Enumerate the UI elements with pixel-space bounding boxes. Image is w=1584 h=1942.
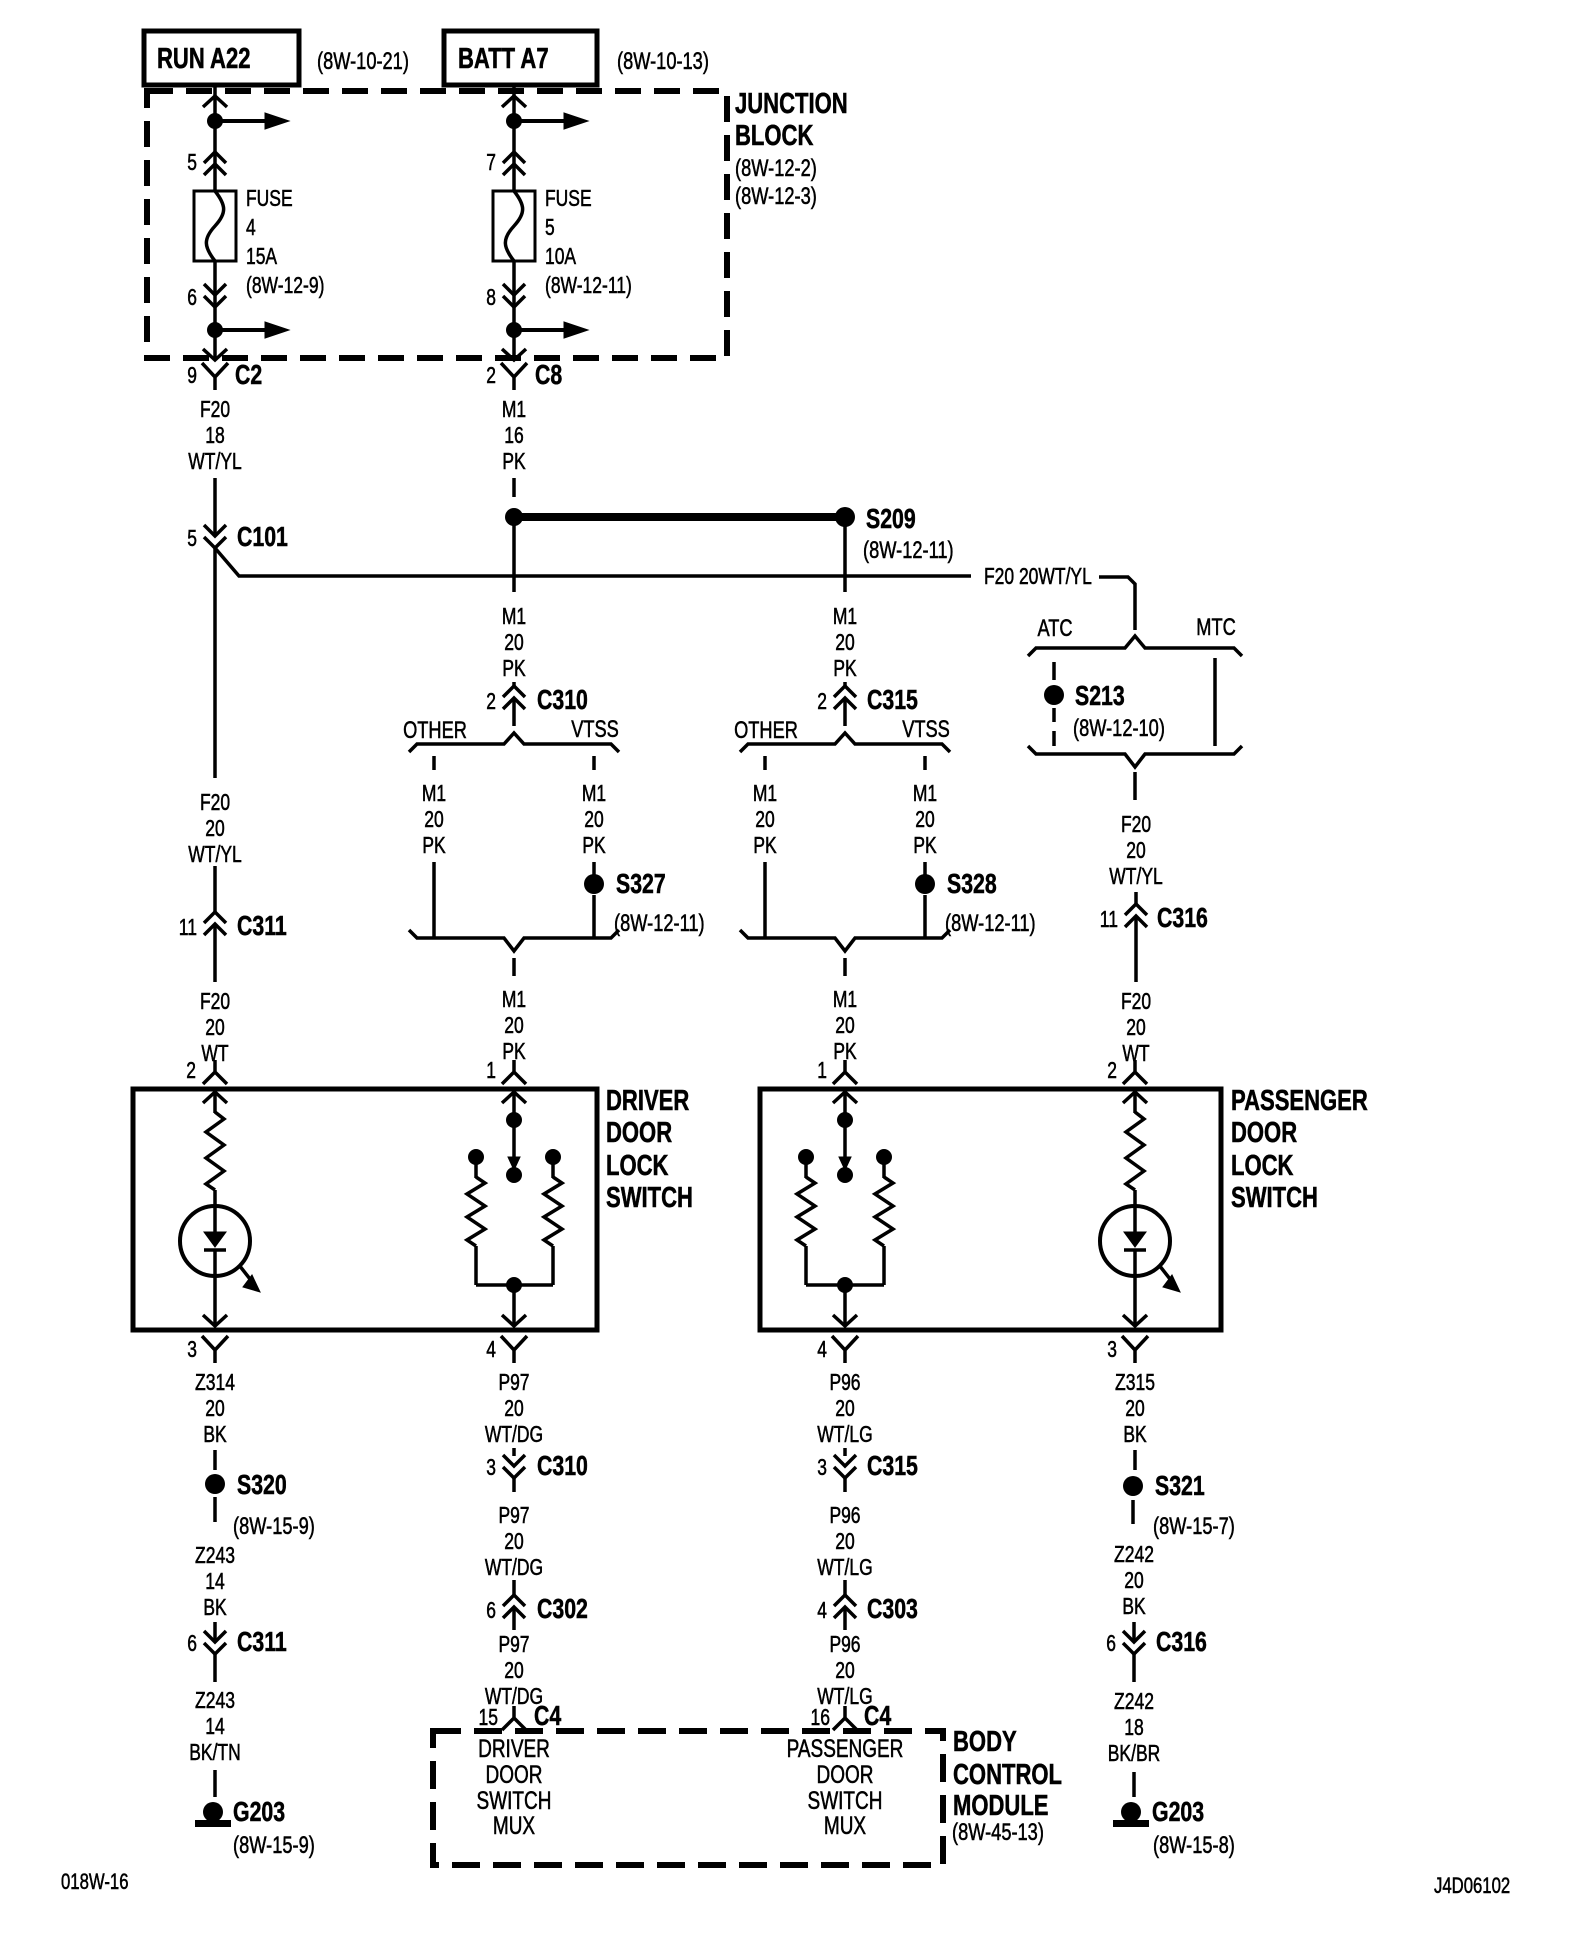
svg-text:7: 7 xyxy=(486,149,496,175)
MTC branch wire xyxy=(1213,658,1217,746)
svg-text:C303: C303 xyxy=(867,1593,918,1624)
svg-text:G203: G203 xyxy=(233,1796,285,1827)
svg-text:(8W-10-13): (8W-10-13) xyxy=(617,48,709,75)
svg-text:PK: PK xyxy=(582,832,606,858)
svg-text:PK: PK xyxy=(502,448,526,474)
driver branch merge brace xyxy=(409,930,619,951)
svg-text:6: 6 xyxy=(1106,1630,1116,1656)
svg-text:M1: M1 xyxy=(502,603,526,629)
driver LED wire xyxy=(213,1190,217,1232)
svg-text:(8W-15-8): (8W-15-8) xyxy=(1153,1832,1235,1859)
C310 branch brace xyxy=(409,733,619,752)
bus corner wire to ATC/MTC xyxy=(1099,577,1135,630)
ground G203 left xyxy=(203,1802,223,1822)
wire below merge xyxy=(1133,772,1137,800)
svg-text:P96: P96 xyxy=(829,1631,860,1657)
svg-text:MUX: MUX xyxy=(493,1812,535,1840)
svg-text:14: 14 xyxy=(205,1568,225,1594)
svg-text:DOOR: DOOR xyxy=(817,1761,874,1789)
svg-text:OTHER: OTHER xyxy=(734,717,798,744)
wire to C310 xyxy=(512,682,516,688)
svg-text:11: 11 xyxy=(1100,906,1118,932)
svg-text:FUSE: FUSE xyxy=(246,185,293,211)
splice S327 xyxy=(584,874,604,894)
svg-text:BK/TN: BK/TN xyxy=(189,1739,241,1765)
fuse 5 10A xyxy=(493,191,535,261)
pin 6 connector chevrons xyxy=(204,284,226,307)
svg-text:F20 20WT/YL: F20 20WT/YL xyxy=(984,563,1092,589)
branch wire to F20 bus xyxy=(215,548,971,576)
svg-text:20: 20 xyxy=(755,806,775,832)
svg-text:S321: S321 xyxy=(1155,1470,1205,1501)
svg-text:6: 6 xyxy=(187,1630,197,1656)
wire exiting junction block xyxy=(512,330,516,358)
svg-text:Z243: Z243 xyxy=(195,1542,235,1568)
svg-text:4: 4 xyxy=(246,214,256,240)
connector C310 pin 2 xyxy=(503,686,525,709)
pin 8 connector chevrons xyxy=(503,284,525,307)
splice S320 xyxy=(205,1474,225,1494)
svg-text:M1: M1 xyxy=(913,780,937,806)
svg-text:(8W-12-11): (8W-12-11) xyxy=(614,910,705,937)
wire below C101 xyxy=(213,548,217,778)
svg-text:M1: M1 xyxy=(753,780,777,806)
wire below S209 tap xyxy=(512,524,516,592)
svg-text:10A: 10A xyxy=(545,243,577,269)
svg-text:WT/YL: WT/YL xyxy=(1109,863,1163,889)
passenger VTSS branch xyxy=(923,756,927,770)
svg-text:MODULE: MODULE xyxy=(953,1790,1049,1822)
passenger branch merge brace xyxy=(740,930,950,951)
svg-text:BK: BK xyxy=(1122,1593,1146,1619)
passenger LED wire xyxy=(1133,1190,1137,1232)
svg-text:WT/LG: WT/LG xyxy=(817,1421,872,1447)
svg-text:PK: PK xyxy=(422,832,446,858)
svg-text:DRIVER: DRIVER xyxy=(606,1085,689,1117)
driver switch resistor left xyxy=(467,1177,485,1246)
svg-text:P97: P97 xyxy=(498,1502,529,1528)
svg-text:(8W-12-11): (8W-12-11) xyxy=(945,910,1036,937)
svg-text:SWITCH: SWITCH xyxy=(808,1787,883,1815)
wire to C302 xyxy=(512,1580,516,1596)
svg-text:WT/DG: WT/DG xyxy=(485,1421,543,1447)
wire to C303 xyxy=(843,1580,847,1596)
svg-text:C311: C311 xyxy=(237,1626,287,1657)
passenger switch wire to exit xyxy=(843,1285,847,1326)
wire below C311 lower xyxy=(213,1654,217,1682)
driver switch resistor right xyxy=(544,1177,562,1246)
svg-text:20: 20 xyxy=(835,1012,855,1038)
svg-text:20: 20 xyxy=(835,1395,855,1421)
svg-text:(8W-12-2): (8W-12-2) xyxy=(735,155,817,182)
wire to C311 xyxy=(213,866,217,913)
svg-text:BLOCK: BLOCK xyxy=(735,120,813,152)
connector C315 pin 2 xyxy=(834,686,856,709)
svg-text:VTSS: VTSS xyxy=(571,716,619,743)
ground G203 right xyxy=(1121,1802,1141,1822)
svg-text:20: 20 xyxy=(504,629,524,655)
ATC dashes below S213 xyxy=(1052,708,1056,722)
ATC MTC split brace xyxy=(1028,636,1242,656)
svg-text:2: 2 xyxy=(1107,1057,1117,1083)
passenger switch resistor left xyxy=(797,1177,815,1246)
bus wire to S209 xyxy=(522,513,836,521)
svg-text:WT/YL: WT/YL xyxy=(188,448,242,474)
svg-text:J4D06102: J4D06102 xyxy=(1434,1873,1510,1898)
driver switch wire to exit xyxy=(512,1285,516,1326)
power feed box BATT A7 xyxy=(444,31,597,85)
passenger switch contact right xyxy=(876,1149,892,1165)
svg-text:S327: S327 xyxy=(616,868,666,899)
wire to C101 xyxy=(213,478,217,536)
svg-text:PK: PK xyxy=(833,655,857,681)
svg-text:18: 18 xyxy=(1124,1714,1144,1740)
svg-text:SWITCH: SWITCH xyxy=(1231,1182,1318,1214)
passenger OTHER branch xyxy=(763,756,767,770)
svg-text:WT/DG: WT/DG xyxy=(485,1554,543,1580)
svg-text:BK: BK xyxy=(203,1421,227,1447)
connector C311 pin 11 xyxy=(204,912,226,935)
svg-text:P96: P96 xyxy=(829,1369,860,1395)
driver switch pole node xyxy=(506,1112,522,1128)
passenger switch pole node xyxy=(837,1112,853,1128)
svg-text:SWITCH: SWITCH xyxy=(606,1182,693,1214)
svg-text:F20: F20 xyxy=(1121,811,1151,837)
driver switch wiper arrow xyxy=(512,1127,516,1158)
junction node below fuse 4 xyxy=(207,322,223,338)
svg-text:2: 2 xyxy=(817,688,827,714)
svg-text:20: 20 xyxy=(205,1395,225,1421)
svg-text:F20: F20 xyxy=(200,396,230,422)
svg-text:2: 2 xyxy=(486,362,496,388)
svg-text:3: 3 xyxy=(1107,1336,1117,1362)
power feed box RUN A22 xyxy=(144,31,299,85)
passenger LED emission arrow xyxy=(1159,1265,1170,1279)
passenger switch resistor right xyxy=(875,1177,893,1246)
svg-text:11: 11 xyxy=(179,914,197,940)
svg-text:WT/LG: WT/LG xyxy=(817,1554,872,1580)
junction node above fuse 4 xyxy=(207,113,223,129)
connector C315 pin 3 xyxy=(834,1455,856,1478)
passenger switch entry arrow xyxy=(833,1092,857,1103)
splice S328 xyxy=(915,874,935,894)
svg-text:PASSENGER: PASSENGER xyxy=(1231,1085,1368,1117)
dash below S320 xyxy=(213,1497,217,1522)
svg-text:5: 5 xyxy=(187,525,197,551)
junction node above fuse 5 xyxy=(506,113,522,129)
passenger LED wire to exit xyxy=(1133,1250,1137,1326)
passenger LED resistor xyxy=(1126,1112,1144,1190)
svg-text:18: 18 xyxy=(205,422,225,448)
wire feed into BATT box xyxy=(512,85,516,121)
ATC branch dashes xyxy=(1052,662,1056,680)
svg-text:P97: P97 xyxy=(498,1631,529,1657)
svg-text:S320: S320 xyxy=(237,1469,287,1500)
connector C302 pin 6 xyxy=(503,1595,525,1618)
svg-text:P97: P97 xyxy=(498,1369,529,1395)
svg-text:C8: C8 xyxy=(535,359,562,390)
driver switch resistor joins xyxy=(474,1246,478,1285)
svg-text:1: 1 xyxy=(817,1057,827,1083)
svg-text:2: 2 xyxy=(186,1057,196,1083)
passenger switch output node xyxy=(837,1277,853,1293)
wire to C310 lower xyxy=(512,1448,516,1456)
svg-text:JUNCTION: JUNCTION xyxy=(735,88,848,120)
svg-text:20: 20 xyxy=(1126,1014,1146,1040)
svg-text:C310: C310 xyxy=(537,1450,588,1481)
wire dash below merge xyxy=(512,958,516,976)
driver switch wiper node xyxy=(506,1167,522,1183)
fuse 4 15A xyxy=(194,191,236,261)
connector C101 pin 5 xyxy=(204,525,226,548)
svg-text:16: 16 xyxy=(504,422,524,448)
svg-text:S209: S209 xyxy=(866,503,916,534)
svg-text:C310: C310 xyxy=(537,684,588,715)
dash below S321 xyxy=(1131,1500,1135,1524)
ATC MTC merge brace xyxy=(1028,746,1242,767)
svg-text:20: 20 xyxy=(1126,837,1146,863)
svg-text:20: 20 xyxy=(504,1012,524,1038)
svg-text:(8W-15-7): (8W-15-7) xyxy=(1153,1513,1235,1540)
svg-text:(8W-12-10): (8W-12-10) xyxy=(1073,715,1165,742)
svg-text:4: 4 xyxy=(817,1336,827,1362)
wire to C315 xyxy=(843,682,847,688)
svg-text:20: 20 xyxy=(205,815,225,841)
svg-text:(8W-10-21): (8W-10-21) xyxy=(317,48,409,75)
svg-text:M1: M1 xyxy=(582,780,606,806)
connector C310 pin 3 xyxy=(503,1455,525,1478)
pin 7 connector chevrons xyxy=(503,152,525,175)
svg-text:M1: M1 xyxy=(833,603,857,629)
connector C316 pin 6 xyxy=(1123,1631,1145,1654)
svg-text:4: 4 xyxy=(486,1336,496,1362)
svg-text:2: 2 xyxy=(486,688,496,714)
svg-text:CONTROL: CONTROL xyxy=(953,1759,1062,1791)
svg-text:3: 3 xyxy=(817,1454,827,1480)
passenger switch wiper arrow xyxy=(843,1127,847,1158)
svg-text:WT/YL: WT/YL xyxy=(188,841,242,867)
svg-text:9: 9 xyxy=(187,362,197,388)
connector C303 pin 4 xyxy=(834,1595,856,1618)
svg-text:PASSENGER: PASSENGER xyxy=(787,1735,904,1763)
svg-text:1: 1 xyxy=(486,1057,496,1083)
svg-text:C316: C316 xyxy=(1156,1626,1207,1657)
svg-text:FUSE: FUSE xyxy=(545,185,592,211)
svg-text:15A: 15A xyxy=(246,243,278,269)
svg-text:Z314: Z314 xyxy=(195,1369,235,1395)
svg-text:20: 20 xyxy=(205,1014,225,1040)
svg-text:LOCK: LOCK xyxy=(1231,1150,1294,1182)
passenger switch contact left xyxy=(798,1149,814,1165)
svg-text:8: 8 xyxy=(486,284,496,310)
driver LED emission arrow xyxy=(239,1265,250,1279)
svg-text:S328: S328 xyxy=(947,868,997,899)
wire dash to S321 xyxy=(1133,1450,1137,1470)
connector C316 pin 11 xyxy=(1125,904,1147,927)
svg-text:(8W-15-9): (8W-15-9) xyxy=(233,1513,315,1540)
svg-text:LOCK: LOCK xyxy=(606,1150,669,1182)
svg-text:20: 20 xyxy=(915,806,935,832)
svg-text:OTHER: OTHER xyxy=(403,717,467,744)
wire dash below merge pass xyxy=(843,958,847,976)
svg-text:C316: C316 xyxy=(1157,902,1208,933)
svg-text:20: 20 xyxy=(835,629,855,655)
svg-text:DOOR: DOOR xyxy=(1231,1117,1297,1149)
svg-text:MTC: MTC xyxy=(1196,614,1236,641)
wire S209 down xyxy=(843,525,847,592)
svg-text:C315: C315 xyxy=(867,684,918,715)
wire junction to fuse 5 xyxy=(512,121,516,191)
svg-text:DRIVER: DRIVER xyxy=(478,1735,550,1763)
svg-text:(8W-12-11): (8W-12-11) xyxy=(545,272,632,298)
svg-text:20: 20 xyxy=(504,1657,524,1683)
svg-text:Z242: Z242 xyxy=(1114,1541,1154,1567)
svg-text:PK: PK xyxy=(913,832,937,858)
junction node S209 tap xyxy=(505,508,523,526)
passenger switch resistor joins xyxy=(804,1246,808,1285)
svg-text:M1: M1 xyxy=(833,986,857,1012)
svg-text:DOOR: DOOR xyxy=(486,1761,543,1789)
wire below fuse 5 xyxy=(512,261,516,330)
svg-text:20: 20 xyxy=(1124,1567,1144,1593)
svg-text:(8W-15-9): (8W-15-9) xyxy=(233,1832,315,1859)
svg-text:P96: P96 xyxy=(829,1502,860,1528)
wire feed into RUN box xyxy=(213,85,217,121)
svg-text:16: 16 xyxy=(811,1704,831,1730)
svg-text:5: 5 xyxy=(545,214,555,240)
svg-text:M1: M1 xyxy=(502,396,526,422)
svg-text:20: 20 xyxy=(1125,1395,1145,1421)
passenger LED lamp xyxy=(1100,1206,1170,1276)
svg-text:20: 20 xyxy=(504,1395,524,1421)
svg-text:20: 20 xyxy=(424,806,444,832)
svg-text:BK: BK xyxy=(203,1594,227,1620)
driver LED lamp xyxy=(180,1206,250,1276)
svg-text:Z315: Z315 xyxy=(1115,1369,1155,1395)
svg-text:S213: S213 xyxy=(1075,680,1125,711)
wire to C311 lower xyxy=(213,1622,217,1642)
svg-text:ATC: ATC xyxy=(1037,615,1072,642)
svg-text:C302: C302 xyxy=(537,1593,588,1624)
svg-text:20: 20 xyxy=(584,806,604,832)
svg-text:C4: C4 xyxy=(534,1700,562,1731)
svg-text:6: 6 xyxy=(486,1597,496,1623)
svg-text:3: 3 xyxy=(187,1336,197,1362)
splice S321 xyxy=(1123,1476,1143,1496)
svg-text:MUX: MUX xyxy=(824,1812,866,1840)
junction block dashed border xyxy=(147,91,727,358)
svg-text:F20: F20 xyxy=(1121,988,1151,1014)
svg-text:VTSS: VTSS xyxy=(902,716,950,743)
svg-text:G203: G203 xyxy=(1152,1796,1204,1827)
svg-text:20: 20 xyxy=(835,1657,855,1683)
svg-text:018W-16: 018W-16 xyxy=(61,1869,129,1894)
svg-text:F20: F20 xyxy=(200,789,230,815)
svg-text:(8W-45-13): (8W-45-13) xyxy=(952,1819,1044,1846)
wire to C315 lower xyxy=(843,1448,847,1456)
svg-text:C311: C311 xyxy=(237,910,287,941)
svg-text:C101: C101 xyxy=(237,521,288,552)
svg-text:(8W-12-3): (8W-12-3) xyxy=(735,183,817,210)
svg-text:(8W-12-11): (8W-12-11) xyxy=(863,537,954,564)
wire junction to fuse 4 xyxy=(213,121,217,191)
wire below fuse 4 xyxy=(213,261,217,330)
driver LED resistor xyxy=(206,1112,224,1190)
wire to C316 lower xyxy=(1132,1622,1136,1642)
driver LED wire to exit xyxy=(213,1250,217,1326)
svg-text:SWITCH: SWITCH xyxy=(477,1787,552,1815)
svg-text:BK: BK xyxy=(1123,1421,1147,1447)
driver switch contact left xyxy=(468,1149,484,1165)
driver VTSS branch xyxy=(592,756,596,770)
body control module dashed box xyxy=(433,1731,943,1865)
svg-text:Z243: Z243 xyxy=(195,1687,235,1713)
driver switch entry arrow xyxy=(502,1092,526,1103)
svg-text:BK/BR: BK/BR xyxy=(1108,1740,1161,1766)
svg-text:C315: C315 xyxy=(867,1450,918,1481)
wire to ground G203 left xyxy=(213,1770,217,1797)
wire below S327 xyxy=(592,895,596,938)
svg-text:4: 4 xyxy=(817,1597,827,1623)
driver LED entry arrow xyxy=(203,1092,227,1103)
driver OTHER branch xyxy=(432,756,436,770)
pin 5 connector chevrons xyxy=(204,152,226,175)
svg-text:DOOR: DOOR xyxy=(606,1117,672,1149)
svg-text:RUN A22: RUN A22 xyxy=(157,43,251,75)
passenger LED entry arrow xyxy=(1123,1092,1147,1103)
splice S209 xyxy=(835,507,855,527)
svg-text:BODY: BODY xyxy=(953,1726,1017,1758)
svg-text:M1: M1 xyxy=(422,780,446,806)
C315 branch brace xyxy=(740,733,950,752)
svg-text:20: 20 xyxy=(835,1528,855,1554)
svg-text:F20: F20 xyxy=(200,988,230,1014)
svg-text:BATT A7: BATT A7 xyxy=(458,43,549,75)
svg-text:6: 6 xyxy=(187,284,197,310)
svg-text:Z242: Z242 xyxy=(1114,1688,1154,1714)
svg-text:14: 14 xyxy=(205,1713,225,1739)
wire dash below C8 xyxy=(512,478,516,497)
svg-text:PK: PK xyxy=(502,655,526,681)
splice S213 xyxy=(1044,685,1064,705)
wire below C316 lower xyxy=(1132,1654,1136,1682)
wire to C316 xyxy=(1134,892,1138,905)
driver door lock switch box xyxy=(133,1089,597,1330)
svg-text:C4: C4 xyxy=(864,1700,892,1731)
passenger switch wiper node xyxy=(837,1167,853,1183)
svg-text:5: 5 xyxy=(187,149,197,175)
wire dash to S320 xyxy=(213,1450,217,1470)
svg-text:M1: M1 xyxy=(502,986,526,1012)
junction node below fuse 5 xyxy=(506,322,522,338)
wire to ground G203 right xyxy=(1132,1772,1136,1797)
driver switch output node xyxy=(506,1277,522,1293)
connector C311 pin 6 xyxy=(204,1631,226,1654)
passenger door lock switch box xyxy=(760,1089,1221,1330)
svg-text:15: 15 xyxy=(479,1704,499,1730)
wire exiting junction block xyxy=(213,330,217,358)
svg-text:3: 3 xyxy=(486,1454,496,1480)
svg-text:(8W-12-9): (8W-12-9) xyxy=(246,272,324,298)
driver switch contact right xyxy=(545,1149,561,1165)
wire below S328 xyxy=(923,895,927,938)
svg-text:PK: PK xyxy=(753,832,777,858)
svg-text:C2: C2 xyxy=(235,359,262,390)
svg-text:20: 20 xyxy=(504,1528,524,1554)
